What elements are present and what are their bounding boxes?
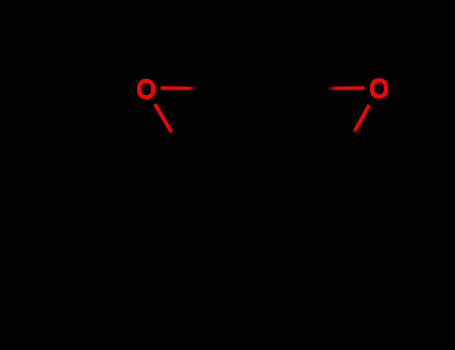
right epoxide O-C3 bond [328,86,365,90]
right epoxide O-C4 bond [354,105,369,132]
wire methyl lower visible part [56,213,113,234]
wire C1-C2 oxirane edge [172,88,196,133]
wire methyl upper visible part [56,146,113,169]
wire C3-C4 oxirane edge [330,88,354,132]
atom O left [139,81,153,97]
wire C1-CH2 bridge rise [196,62,244,89]
left epoxide O-C2 bond [155,104,172,133]
left epoxide O-C1 bond [161,86,197,90]
wire CH2-C3 bridge fall [282,62,330,89]
atom O right [372,80,386,96]
wire CH2-CH2 bridge top [243,61,282,63]
